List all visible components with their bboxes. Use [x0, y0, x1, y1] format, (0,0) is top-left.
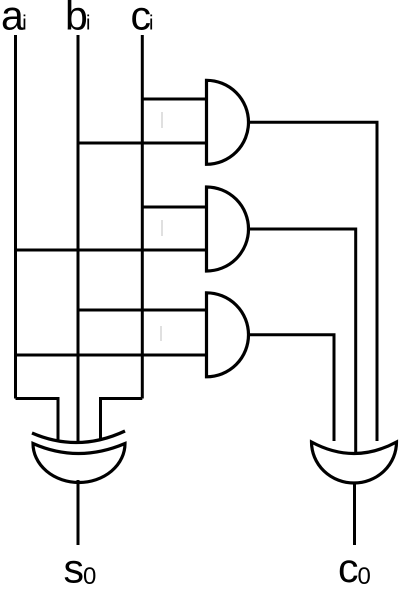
- svg-text:0: 0: [358, 563, 371, 590]
- OR gate body: [312, 442, 397, 483]
- XOR gate body: [33, 444, 125, 483]
- wire c_i to AND U1 top input: [142, 98, 208, 101]
- svg-text:0: 0: [83, 563, 96, 590]
- stray faint mark near AND U3 inputs: [160, 326, 162, 341]
- svg-text:b: b: [65, 0, 88, 39]
- input label a_i: [1, 0, 27, 39]
- wire b_i to AND U3 top input: [78, 309, 208, 312]
- wire a_i funnel to XOR left input: [16, 399, 59, 442]
- output label s_0: [64, 546, 97, 590]
- svg-text:a: a: [1, 0, 24, 39]
- wire AND U3 output to OR left input: [249, 335, 335, 441]
- svg-text:i: i: [149, 13, 153, 35]
- svg-text:s: s: [64, 546, 85, 590]
- AND gate U2: [207, 187, 249, 271]
- wire c_i to AND U2 top input: [142, 206, 208, 209]
- AND gate U3: [207, 293, 249, 377]
- svg-text:c: c: [338, 545, 359, 590]
- svg-text:i: i: [86, 13, 90, 35]
- wire c_i vertical: [141, 35, 144, 399]
- wire a_i to AND U3 bottom input: [16, 354, 209, 357]
- wire AND U2 output to OR middle input: [249, 229, 356, 452]
- svg-text:c: c: [131, 0, 152, 39]
- svg-text:i: i: [22, 13, 26, 35]
- wire XOR output s_0: [77, 480, 80, 545]
- input label b_i: [65, 0, 90, 39]
- wire a_i to AND U2 bottom input: [16, 249, 209, 252]
- wire AND U1 output to OR right input: [249, 122, 378, 441]
- XOR gate input curve: [32, 431, 125, 443]
- AND gate U1: [207, 80, 249, 164]
- wire b_i to AND U1 bottom input: [78, 142, 208, 145]
- input label c_i: [131, 0, 154, 39]
- wire b_i vertical: [77, 35, 80, 443]
- output label c_0: [338, 545, 371, 590]
- wire OR output c_0: [353, 482, 356, 545]
- wire a_i vertical: [14, 35, 17, 399]
- wire c_i funnel to XOR right input: [101, 399, 143, 442]
- stray faint mark near AND U1 inputs: [161, 112, 163, 128]
- stray faint mark near AND U2 inputs: [161, 220, 163, 236]
